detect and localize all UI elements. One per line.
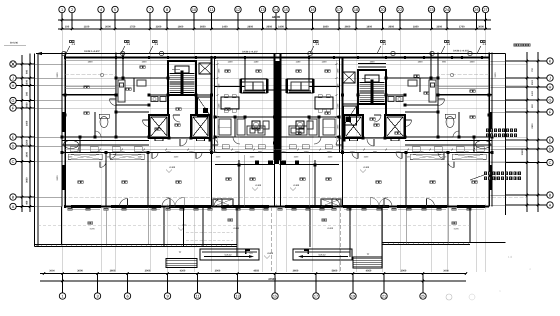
core2 walls bbox=[385, 104, 387, 115]
svg-text:E: E bbox=[549, 138, 552, 142]
svg-text:1700: 1700 bbox=[459, 25, 465, 28]
svg-text:C: C bbox=[12, 160, 15, 164]
entry steps left bbox=[166, 259, 197, 268]
svg-text:4050: 4050 bbox=[253, 270, 259, 273]
stair S2 bbox=[358, 70, 386, 104]
svg-text:16: 16 bbox=[310, 8, 314, 12]
bottom tiny label rows bbox=[152, 209, 156, 211]
svg-text:2400: 2400 bbox=[396, 151, 402, 154]
svg-text:18: 18 bbox=[354, 8, 358, 12]
svg-text:10: 10 bbox=[192, 8, 196, 12]
svg-text:2400: 2400 bbox=[56, 72, 59, 78]
svg-text:A: A bbox=[12, 205, 15, 209]
building top terrace line bbox=[36, 53, 506, 55]
svg-text:3000: 3000 bbox=[478, 25, 484, 28]
svg-text:2900: 2900 bbox=[531, 123, 534, 129]
svg-text:2400: 2400 bbox=[120, 151, 126, 154]
A-wall window mullions bbox=[80, 205, 82, 207]
svg-text:3600: 3600 bbox=[26, 177, 29, 183]
right annotation text blocks bbox=[486, 129, 489, 132]
svg-text:1200: 1200 bbox=[228, 61, 234, 64]
svg-text:1800: 1800 bbox=[366, 25, 372, 28]
svg-text:-0.600: -0.600 bbox=[267, 252, 274, 255]
svg-text:2000: 2000 bbox=[26, 102, 29, 108]
east yard fence bbox=[505, 54, 507, 216]
svg-text:1500: 1500 bbox=[327, 151, 333, 154]
svg-text:3300: 3300 bbox=[281, 151, 287, 154]
svg-text:1800: 1800 bbox=[88, 61, 94, 64]
vertical grid axis lines bbox=[62, 29, 486, 272]
svg-text:6: 6 bbox=[126, 294, 128, 298]
svg-text:7: 7 bbox=[149, 8, 151, 12]
svg-text:1 8: 1 8 bbox=[508, 255, 513, 259]
section cut marks bbox=[245, 250, 250, 251]
top overall dimension line 44800 bbox=[58, 19, 491, 21]
room labels bbox=[84, 86, 89, 88]
wall junction poché bbox=[64, 93, 67, 96]
svg-text:D: D bbox=[12, 144, 15, 148]
stair S1 bbox=[168, 61, 196, 95]
svg-text:-1.5: -1.5 bbox=[315, 43, 320, 46]
svg-text:27: 27 bbox=[483, 8, 487, 12]
downspout circles on top line bbox=[62, 51, 66, 55]
east exterior wall bbox=[491, 53, 493, 207]
svg-text:2400: 2400 bbox=[74, 151, 80, 154]
svg-text:1200: 1200 bbox=[322, 61, 328, 64]
svg-text:15: 15 bbox=[284, 8, 288, 12]
svg-text:4300: 4300 bbox=[180, 270, 186, 273]
svg-text:9: 9 bbox=[166, 294, 168, 298]
svg-text:H: H bbox=[12, 84, 15, 88]
axis dashes through court bbox=[270, 207, 272, 273]
svg-text:3000: 3000 bbox=[77, 270, 83, 273]
west exterior wall bbox=[61, 53, 63, 207]
svg-text:2: 2 bbox=[71, 8, 73, 12]
svg-text:4: 4 bbox=[100, 8, 102, 12]
svg-text:2400: 2400 bbox=[494, 72, 497, 78]
top bay leaders and labels bbox=[66, 46, 70, 54]
top right annotation bbox=[514, 44, 530, 46]
bottom segment dimension line bbox=[40, 273, 466, 275]
svg-text:25: 25 bbox=[421, 294, 425, 298]
svg-text:-0.200: -0.200 bbox=[327, 227, 334, 230]
top grid bubbles bbox=[61, 13, 63, 29]
west yard fence bbox=[34, 54, 36, 247]
terrace garden dividers bbox=[105, 207, 107, 244]
svg-text:-1.5: -1.5 bbox=[482, 43, 487, 46]
middle room fixtures bbox=[252, 121, 260, 129]
unit 2 interior walls bbox=[438, 94, 492, 96]
svg-text:-1.5: -1.5 bbox=[126, 43, 131, 46]
svg-text:3600: 3600 bbox=[110, 270, 116, 273]
svg-text:1100: 1100 bbox=[84, 25, 90, 28]
svg-text:1500: 1500 bbox=[370, 61, 376, 64]
svg-text:3000: 3000 bbox=[215, 270, 221, 273]
svg-text:2400: 2400 bbox=[442, 151, 448, 154]
elevator E1 bbox=[149, 115, 169, 141]
interior vertical dim columns bbox=[217, 60, 219, 145]
svg-text:1400: 1400 bbox=[26, 151, 29, 157]
north-west arrow bbox=[36, 53, 52, 55]
svg-text:-0.300: -0.300 bbox=[363, 166, 370, 169]
svg-text:13: 13 bbox=[260, 8, 264, 12]
balcony sill lines under windows bbox=[72, 208, 100, 210]
svg-text:J: J bbox=[549, 76, 551, 80]
svg-text:1800: 1800 bbox=[418, 61, 424, 64]
svg-text:-0.300: -0.300 bbox=[293, 184, 300, 187]
svg-text:22: 22 bbox=[398, 8, 402, 12]
svg-text:21: 21 bbox=[382, 294, 386, 298]
svg-text:H: H bbox=[549, 85, 552, 89]
elevator E3 bbox=[344, 115, 363, 141]
west yard axis stubs bbox=[35, 64, 63, 207]
stair2 bulkhead lines bbox=[358, 63, 386, 65]
svg-text:2600: 2600 bbox=[200, 25, 206, 28]
svg-text:1800: 1800 bbox=[413, 25, 419, 28]
svg-text:2800: 2800 bbox=[323, 25, 329, 28]
svg-text:1400: 1400 bbox=[222, 25, 228, 28]
svg-text:1500: 1500 bbox=[142, 61, 148, 64]
svg-text:3000: 3000 bbox=[443, 270, 449, 273]
svg-text:5800: 5800 bbox=[332, 270, 338, 273]
bottom main wall (A axis) with window gaps bbox=[65, 206, 72, 208]
svg-text:13: 13 bbox=[235, 294, 239, 298]
top wall poche bbox=[64, 56, 66, 59]
svg-text:3200: 3200 bbox=[156, 25, 162, 28]
svg-text:23: 23 bbox=[429, 8, 433, 12]
svg-text:3300: 3300 bbox=[166, 151, 172, 154]
faint marks bottom right bbox=[446, 294, 452, 300]
svg-text:1500: 1500 bbox=[470, 61, 476, 64]
svg-text:G: G bbox=[549, 98, 552, 102]
elevator E2 bbox=[191, 115, 210, 141]
svg-text:1400: 1400 bbox=[26, 120, 29, 126]
ramp left bbox=[200, 249, 259, 260]
svg-text:20: 20 bbox=[380, 8, 384, 12]
svg-text:2400: 2400 bbox=[189, 151, 195, 154]
svg-text:A: A bbox=[549, 203, 552, 207]
svg-text:19: 19 bbox=[351, 294, 355, 298]
svg-text:300: 300 bbox=[26, 91, 29, 96]
svg-text:1100: 1100 bbox=[296, 61, 302, 64]
svg-text:12: 12 bbox=[236, 8, 240, 12]
bottom grid bubbles bbox=[62, 274, 64, 293]
svg-text:5: 5 bbox=[114, 8, 116, 12]
svg-text:1400: 1400 bbox=[278, 25, 284, 28]
svg-text:17: 17 bbox=[337, 8, 341, 12]
svg-text:1100: 1100 bbox=[254, 61, 260, 64]
svg-text:1400: 1400 bbox=[531, 90, 534, 96]
core1 walls bbox=[167, 95, 169, 115]
svg-text:C: C bbox=[549, 161, 552, 165]
svg-text:1100: 1100 bbox=[419, 151, 425, 154]
svg-text:11: 11 bbox=[210, 8, 214, 12]
right dimension lines bbox=[526, 52, 528, 212]
svg-text:2600: 2600 bbox=[388, 25, 394, 28]
svg-text:G: G bbox=[12, 99, 15, 103]
left dimension lines bbox=[21, 55, 23, 212]
svg-text:-1.5: -1.5 bbox=[446, 43, 451, 46]
top segment dimension line bbox=[58, 28, 491, 30]
top windows bbox=[72, 57, 108, 59]
svg-text:1500: 1500 bbox=[531, 79, 534, 85]
svg-text:D: D bbox=[549, 147, 552, 151]
svg-text:1750: 1750 bbox=[130, 25, 136, 28]
svg-text:1800: 1800 bbox=[178, 25, 184, 28]
left axis bubbles bbox=[16, 63, 35, 65]
svg-text:J: J bbox=[12, 76, 14, 80]
svg-text:-1.5: -1.5 bbox=[71, 43, 76, 46]
svg-text:b=5.12: b=5.12 bbox=[319, 254, 327, 257]
terrace bottom edges bbox=[35, 244, 238, 246]
svg-text:100: 100 bbox=[65, 25, 70, 28]
svg-text:3000: 3000 bbox=[49, 270, 55, 273]
entry steps right bbox=[353, 257, 382, 268]
svg-text:2400: 2400 bbox=[350, 151, 356, 154]
svg-text:2400: 2400 bbox=[235, 151, 241, 154]
svg-text:B: B bbox=[12, 195, 15, 199]
svg-text:8: 8 bbox=[166, 8, 168, 12]
svg-text:1500: 1500 bbox=[26, 79, 29, 85]
svg-text:11: 11 bbox=[196, 294, 200, 298]
svg-text:-0.75: -0.75 bbox=[454, 228, 460, 231]
svg-text:2600: 2600 bbox=[266, 25, 272, 28]
svg-text:DK08 1+4.607: DK08 1+4.607 bbox=[84, 50, 100, 53]
svg-text:1100: 1100 bbox=[212, 151, 218, 154]
svg-text:DK08 1+4.007: DK08 1+4.007 bbox=[453, 50, 469, 53]
svg-text:2600: 2600 bbox=[293, 270, 299, 273]
svg-text:B=0.06: B=0.06 bbox=[10, 42, 18, 45]
svg-text:600: 600 bbox=[26, 69, 29, 74]
party wall center bbox=[274, 54, 276, 161]
top exterior wall segments bbox=[65, 57, 72, 59]
svg-text:2000: 2000 bbox=[105, 25, 111, 28]
svg-text:2800: 2800 bbox=[247, 25, 253, 28]
svg-text:17: 17 bbox=[314, 294, 318, 298]
svg-text:3000: 3000 bbox=[401, 270, 407, 273]
svg-text:B: B bbox=[549, 193, 552, 197]
svg-text:3200: 3200 bbox=[436, 25, 442, 28]
svg-text:2400: 2400 bbox=[304, 151, 310, 154]
entry court walls bbox=[183, 207, 185, 247]
bottom overall dimension line 47500 bbox=[40, 280, 466, 282]
svg-text:3000: 3000 bbox=[145, 270, 151, 273]
svg-text:26: 26 bbox=[474, 8, 478, 12]
svg-text:DK08 1+4.307: DK08 1+4.307 bbox=[242, 51, 258, 54]
svg-text:-0.300: -0.300 bbox=[255, 184, 262, 187]
svg-text:400: 400 bbox=[26, 200, 29, 205]
svg-text:14: 14 bbox=[274, 8, 278, 12]
elevator E4 bbox=[385, 115, 405, 141]
terrace mid dashed bbox=[38, 224, 470, 226]
svg-text:1200: 1200 bbox=[26, 139, 29, 145]
right axis bubbles bbox=[506, 60, 547, 62]
unit 1 interior walls bbox=[62, 94, 116, 96]
horizontal grid axis lines bbox=[30, 64, 527, 197]
svg-text:4050: 4050 bbox=[366, 270, 372, 273]
terrace fence ticks bbox=[36, 243, 468, 247]
svg-text:-0.300: -0.300 bbox=[169, 166, 176, 169]
svg-text:E: E bbox=[12, 135, 15, 139]
svg-text:-0.75: -0.75 bbox=[182, 224, 188, 227]
svg-text:1500: 1500 bbox=[143, 151, 149, 154]
svg-text:2600: 2600 bbox=[345, 25, 351, 28]
svg-text:15: 15 bbox=[273, 294, 277, 298]
internal dimension row bbox=[65, 149, 489, 151]
svg-text:-1.5: -1.5 bbox=[154, 43, 159, 46]
svg-text:1: 1 bbox=[61, 8, 63, 12]
svg-text:-0.200: -0.200 bbox=[233, 227, 240, 230]
ramp right (mirror) bbox=[293, 249, 352, 260]
svg-text:1: 1 bbox=[61, 294, 63, 298]
entry canopy lines bbox=[186, 231, 233, 233]
svg-text:2400: 2400 bbox=[56, 175, 59, 181]
svg-text:b=5.12: b=5.12 bbox=[225, 254, 233, 257]
svg-text:3: 3 bbox=[96, 294, 98, 298]
svg-text:-0.75: -0.75 bbox=[90, 228, 96, 231]
svg-text:24: 24 bbox=[445, 8, 449, 12]
top wall inner face bbox=[65, 60, 212, 62]
svg-text:K: K bbox=[549, 59, 552, 63]
terrace labels bbox=[88, 222, 93, 224]
terrace outlines bbox=[61, 207, 63, 245]
svg-text:-1.5: -1.5 bbox=[382, 43, 387, 46]
